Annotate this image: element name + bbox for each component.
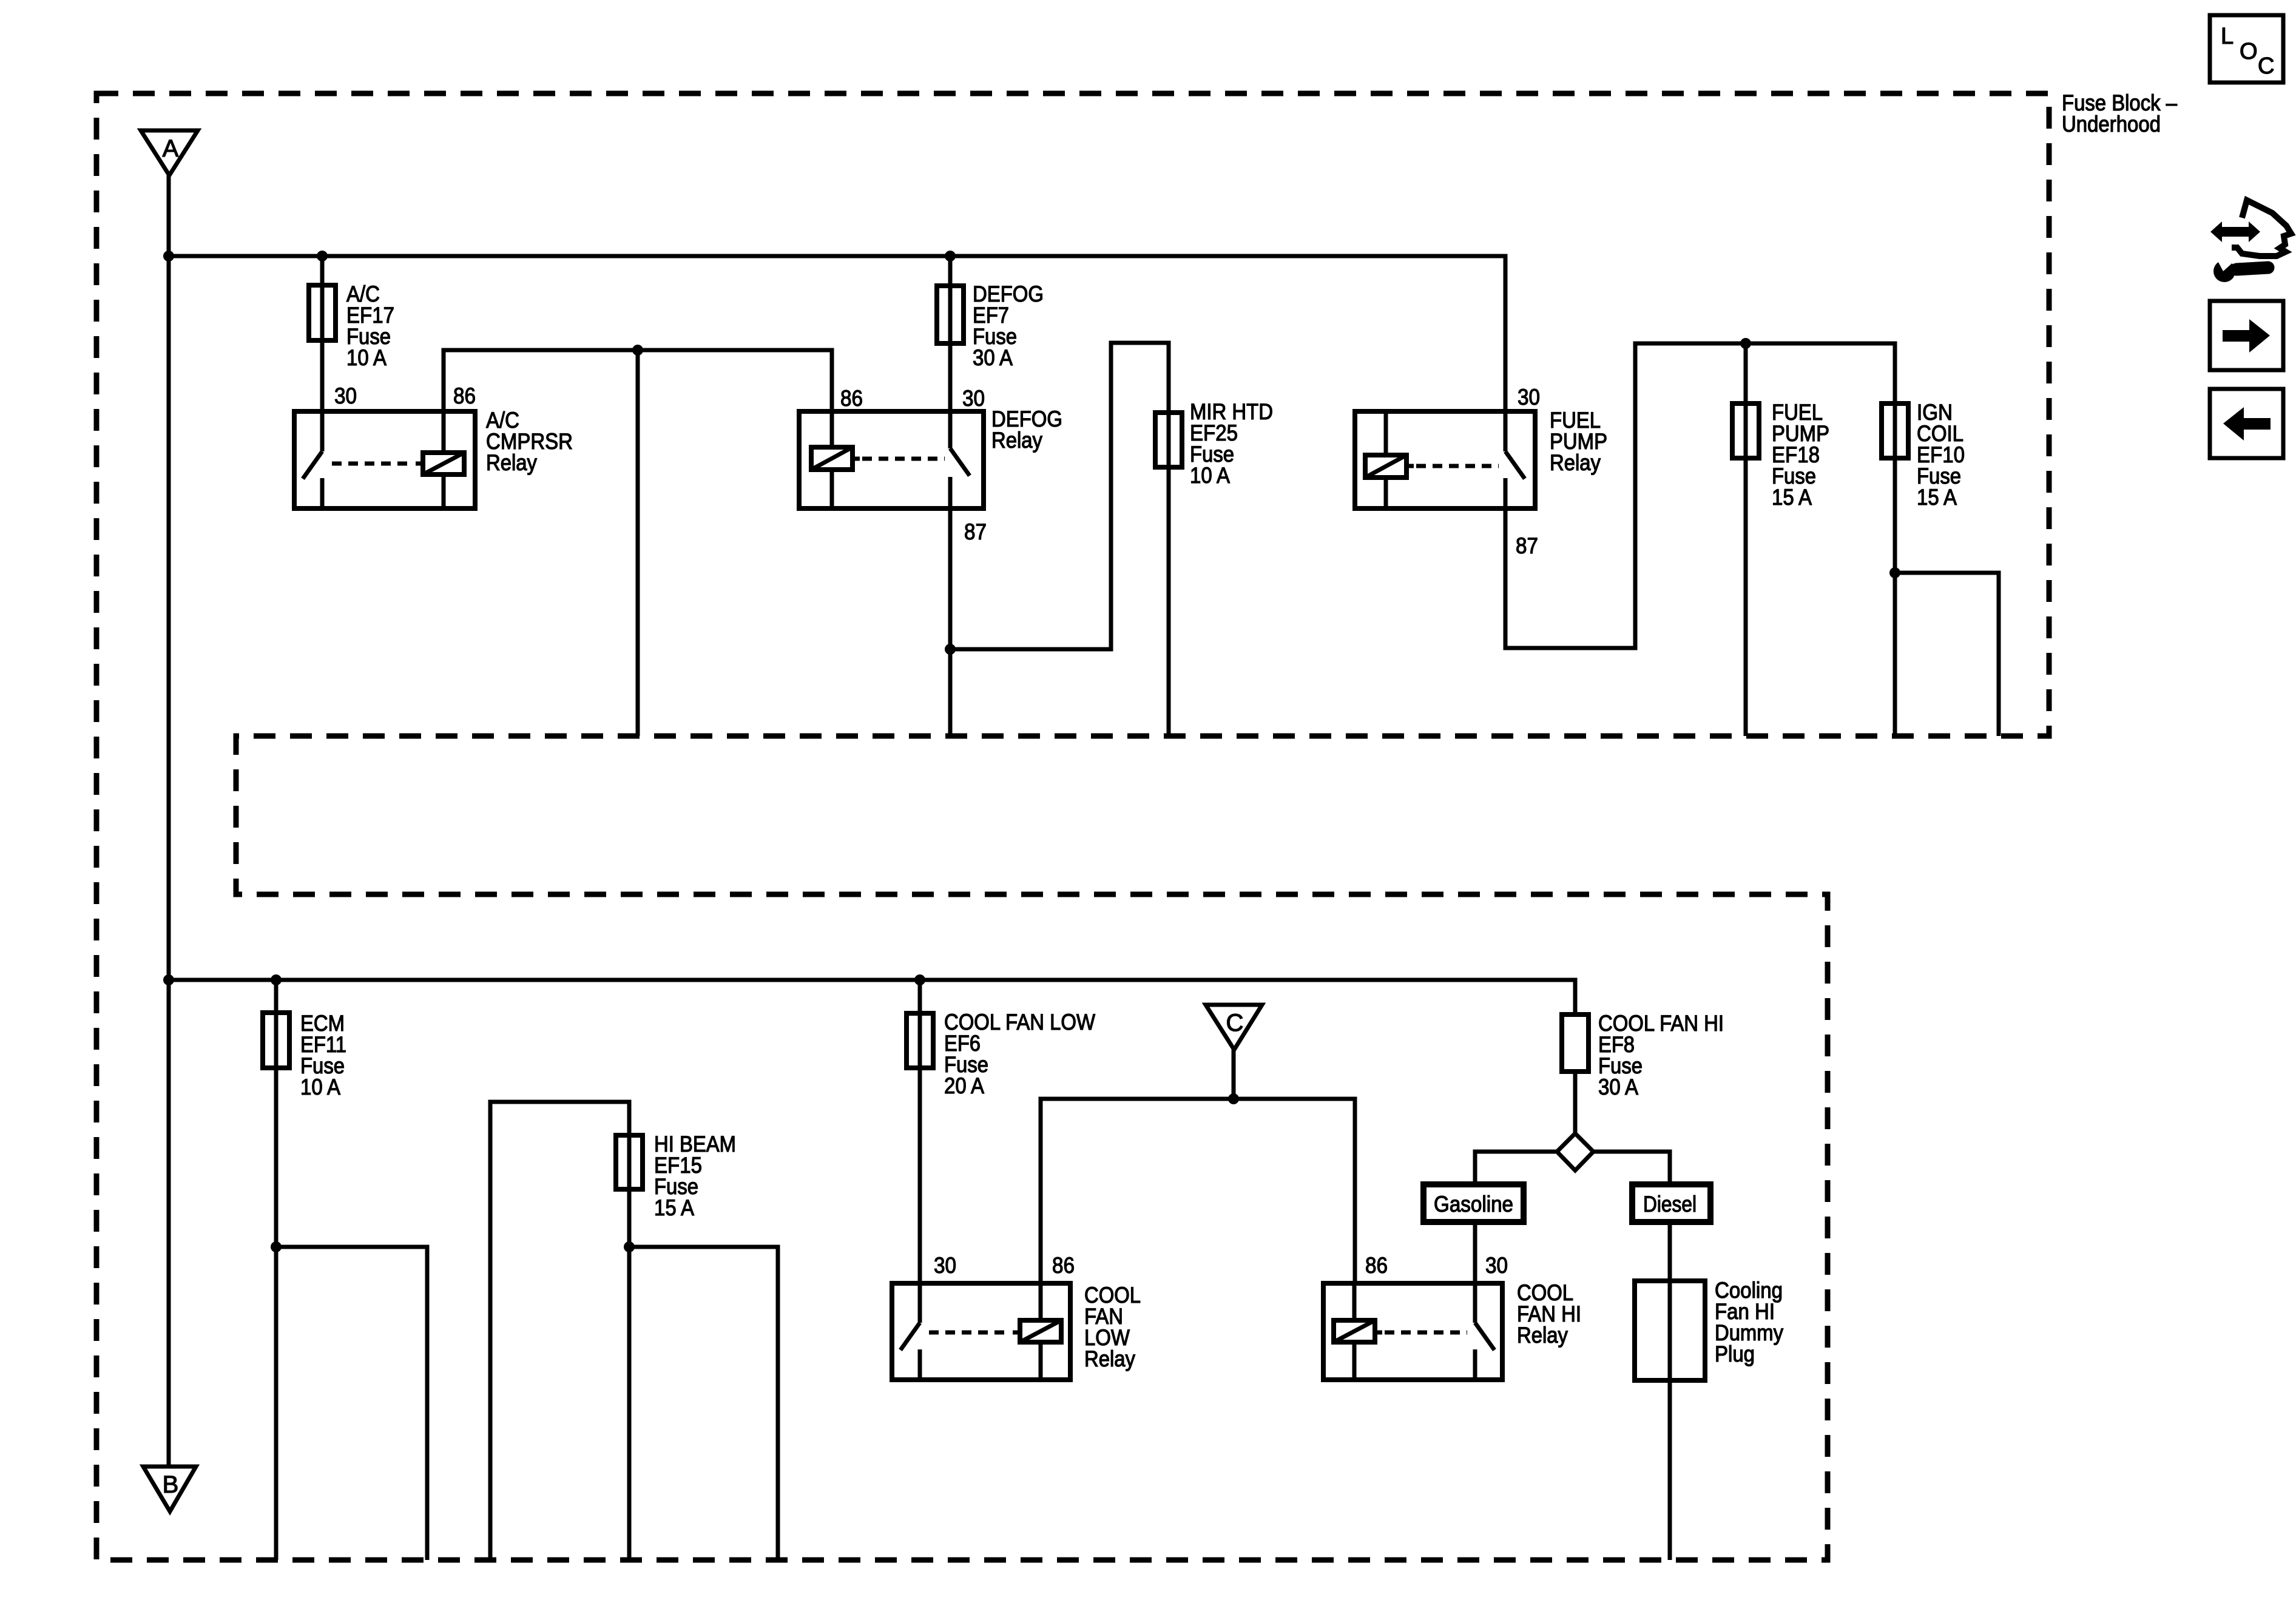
svg-text:Diesel: Diesel — [1643, 1192, 1697, 1217]
svg-text:L: L — [2221, 24, 2234, 49]
fuse EF10 (IGN COIL 15 A) — [1882, 403, 1908, 458]
wire: Diesel through dummy plug to boundary — [1668, 1222, 1672, 1560]
svg-text:30 A: 30 A — [973, 345, 1013, 370]
wire: bottom feed bus to COOL FAN HI fuse — [169, 980, 1575, 1014]
svg-text:10 A: 10 A — [346, 345, 387, 370]
wire: EF6 branch — [918, 980, 922, 1283]
splice diamond — [1557, 1133, 1593, 1170]
wire: C drop to coil bus — [1232, 1050, 1236, 1099]
svg-text:O: O — [2240, 39, 2258, 64]
svg-text:86: 86 — [840, 386, 863, 411]
fuse EF11 (ECM 10 A) — [263, 1013, 289, 1068]
label: A/C CMPRSR Relay — [486, 408, 573, 475]
wire: Gasoline to COOL FAN HI relay 30 — [1473, 1222, 1477, 1283]
label: ECM EF11 Fuse 10 A — [300, 1011, 346, 1099]
relay DEFOG — [799, 411, 984, 508]
svg-text:C: C — [2258, 53, 2274, 79]
wire: DEFOG 87 down with junction — [948, 508, 953, 736]
label: A/C EF17 Fuse 10 A — [346, 282, 394, 370]
svg-text:30: 30 — [1518, 385, 1540, 410]
wire: relay coil bus 86-86 — [1041, 1099, 1355, 1283]
wire: ECM jog branch to boundary — [276, 1247, 427, 1560]
label: IGN COIL EF10 Fuse 15 A — [1917, 400, 1965, 510]
label: COOL FAN HI Relay — [1517, 1280, 1581, 1348]
wire: EF8 to diamond — [1573, 1072, 1578, 1133]
svg-text:30: 30 — [334, 383, 357, 408]
svg-text:Gasoline: Gasoline — [1434, 1192, 1513, 1217]
label: FUEL PUMP EF18 Fuse 15 A — [1772, 400, 1829, 510]
svg-text:86: 86 — [1365, 1253, 1388, 1278]
label: HI BEAM EF15 Fuse 15 A — [654, 1132, 736, 1220]
fuse EF15 (HI BEAM 15 A) — [616, 1135, 643, 1189]
label: COOL FAN LOW EF6 Fuse 20 A — [944, 1010, 1095, 1098]
connector A (triangle) — [141, 130, 198, 175]
wire: EF17 branch — [320, 256, 325, 411]
left-arrow legend box — [2210, 389, 2283, 458]
label: COOL FAN LOW Relay — [1084, 1283, 1141, 1371]
wire: A-B vertical trunk — [167, 175, 171, 1467]
svg-text:87: 87 — [964, 519, 987, 544]
fuse EF18 (FUEL PUMP 15 A) — [1732, 403, 1759, 458]
svg-text:30: 30 — [934, 1253, 956, 1278]
label: COOL FAN HI EF8 Fuse 30 A — [1598, 1011, 1724, 1099]
fuse EF8 (COOL FAN HI 30 A) — [1562, 1014, 1589, 1072]
wire: top feed bus to FUEL PUMP relay pin 30 — [169, 256, 1505, 411]
svg-text:Relay: Relay — [991, 428, 1042, 453]
svg-text:10 A: 10 A — [1190, 463, 1230, 488]
option box Diesel — [1632, 1184, 1710, 1222]
label: Cooling Fan HI Dummy Plug — [1715, 1278, 1783, 1366]
svg-text:B: B — [163, 1471, 179, 1498]
wire: EF11 branch — [274, 980, 279, 1560]
svg-text:20 A: 20 A — [944, 1073, 984, 1098]
svg-text:Plug: Plug — [1715, 1342, 1755, 1366]
Cooling Fan HI Dummy Plug — [1635, 1281, 1705, 1380]
wire: EF18 drop to boundary — [1744, 343, 1748, 736]
connector C (triangle) — [1206, 1005, 1262, 1050]
wire: EF7 branch — [948, 256, 953, 411]
svg-text:87: 87 — [1516, 533, 1538, 558]
svg-text:Underhood: Underhood — [2062, 112, 2161, 137]
svg-text:30 A: 30 A — [1598, 1075, 1638, 1099]
label: Fuse Block - Underhood — [2062, 90, 2177, 137]
connector B (triangle) — [143, 1467, 196, 1511]
fuse EF17 (A/C 10 A) — [309, 285, 336, 340]
relay COOL FAN LOW — [892, 1283, 1070, 1380]
svg-text:15 A: 15 A — [1772, 485, 1812, 510]
fuse EF7 (DEFOG 30 A) — [937, 286, 964, 343]
svg-text:15 A: 15 A — [1917, 485, 1957, 510]
svg-text:Relay: Relay — [486, 450, 537, 475]
svg-text:10 A: 10 A — [300, 1075, 340, 1099]
label: FUEL PUMP Relay — [1550, 408, 1607, 475]
wire: IGN COIL continues to boundary with branch — [1893, 573, 1897, 736]
right-arrow legend box — [2210, 301, 2283, 370]
wire: A/C 86 to DEFOG 86 jog with tap — [444, 350, 832, 411]
wire: branch up-over to MIR HTD fuse — [950, 343, 1169, 736]
svg-text:Relay: Relay — [1517, 1323, 1568, 1348]
fuse EF6 (COOL FAN LOW 20 A) — [907, 1013, 933, 1068]
Fuse Block - Underhood dashed boundary — [96, 93, 2049, 1560]
svg-text:C: C — [1226, 1010, 1244, 1036]
relay FUEL PUMP — [1355, 411, 1535, 508]
svg-text:30: 30 — [1485, 1253, 1508, 1278]
wire: HI BEAM loop from boundary — [490, 1102, 629, 1560]
LOC legend box — [2210, 15, 2283, 83]
svg-text:30: 30 — [962, 386, 985, 411]
wire: diamond to Diesel — [1593, 1152, 1670, 1184]
service tool / hand-wrench icon — [2210, 200, 2291, 282]
relay COOL FAN HI — [1323, 1283, 1502, 1380]
relay A/C CMPRSR — [294, 411, 475, 508]
svg-text:86: 86 — [1052, 1253, 1075, 1278]
svg-text:Relay: Relay — [1084, 1346, 1135, 1371]
svg-text:86: 86 — [453, 383, 476, 408]
option box Gasoline — [1423, 1184, 1524, 1222]
svg-text:A: A — [163, 135, 179, 162]
wire: tap down to boundary — [636, 350, 640, 736]
svg-text:Relay: Relay — [1550, 450, 1601, 475]
wire: FUEL PUMP 87 jog up to fuse rail — [1505, 343, 1895, 648]
wire: diamond to Gasoline — [1475, 1152, 1557, 1184]
wire: HI BEAM jog branch to boundary — [629, 1247, 778, 1560]
fuse EF25 (MIR HTD 10 A) — [1155, 413, 1182, 467]
label: DEFOG Relay — [991, 407, 1062, 453]
label: MIR HTD EF25 Fuse 10 A — [1190, 399, 1273, 488]
svg-text:15 A: 15 A — [654, 1195, 694, 1220]
label: DEFOG EF7 Fuse 30 A — [973, 282, 1044, 370]
